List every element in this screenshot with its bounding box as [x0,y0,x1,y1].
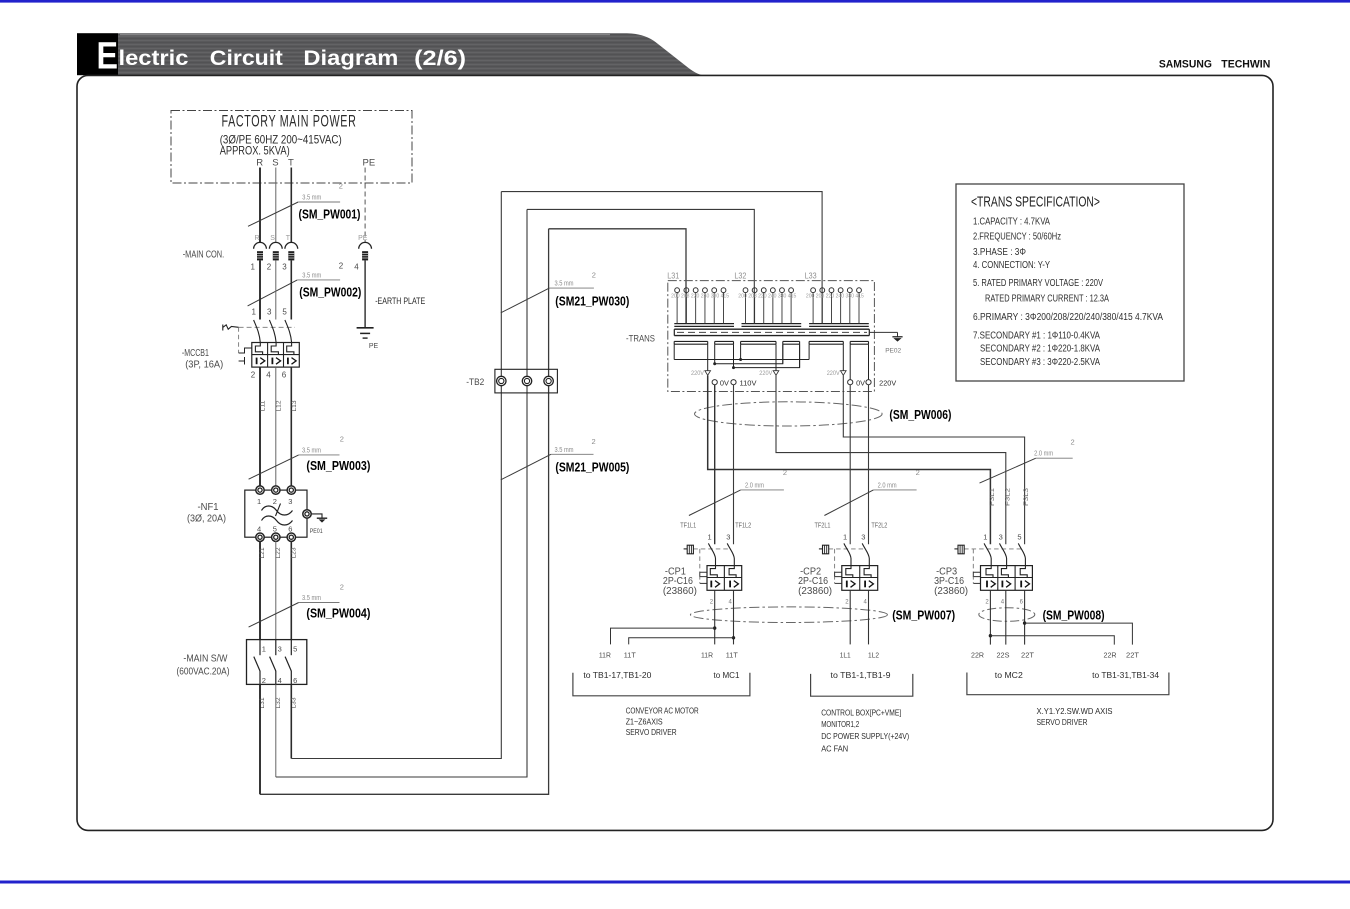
svg-text:PE: PE [358,235,368,242]
svg-text:X.Y1.Y2.SW.WD AXIS: X.Y1.Y2.SW.WD AXIS [1037,706,1113,716]
svg-text:TECHWIN: TECHWIN [1221,59,1270,71]
svg-text:2: 2 [916,468,920,477]
svg-text:200 208 220 240 380 415: 200 208 220 240 380 415 [671,294,729,300]
svg-text:2: 2 [339,262,344,271]
svg-text:1: 1 [708,533,712,542]
svg-text:220V: 220V [759,370,773,377]
svg-text:22T: 22T [1021,653,1035,660]
svg-text:APPROX. 5KVA): APPROX. 5KVA) [220,144,290,158]
secondary interconnect wire S2-S4 left [713,344,783,365]
svg-text:L11: L11 [260,400,267,412]
svg-text:1: 1 [252,308,257,317]
terminal labels 22R 22S 22T [971,653,1140,660]
svg-text:(3Ø, 20A): (3Ø, 20A) [187,514,226,525]
transformer secondary winding S6 [850,341,868,379]
wire loop bottom L32 to TB2 [276,209,527,777]
wire CP2 pole1 output 1L1 [849,590,851,644]
svg-text:6: 6 [288,525,292,534]
svg-text:2: 2 [783,468,787,477]
svg-text:220V: 220V [691,370,705,377]
wire T connector to MCCB1 [290,260,292,319]
svg-text:5: 5 [282,308,287,317]
cable marker ellipse SM_PW006 [695,402,952,426]
svg-text:22T: 22T [1126,653,1140,660]
factory main power box [171,111,412,184]
svg-text:5: 5 [273,525,277,534]
wire feeder to trans L33 [501,192,822,324]
svg-text:MONITOR1,2: MONITOR1,2 [821,719,859,729]
svg-text:to MC2: to MC2 [995,670,1023,680]
wire L11 MCCB1 to NF1 [260,367,267,490]
load description control box monitor dc power supply ac fan [821,708,909,754]
svg-text:(3P, 16A): (3P, 16A) [185,360,223,371]
main diagram border frame [77,75,1273,830]
svg-text:6: 6 [282,371,287,380]
load description conveyor ac motor servo driver [626,705,699,737]
svg-text:(SM21_PW030): (SM21_PW030) [555,295,629,309]
svg-text:-MCCB1: -MCCB1 [182,348,209,359]
svg-text:T: T [286,235,291,242]
svg-text:to MC1: to MC1 [714,670,740,680]
svg-text:L32: L32 [734,272,746,281]
trans specification box [956,184,1184,381]
wire L32 main switch down [275,684,282,777]
svg-text:1: 1 [251,263,256,272]
wire spec callout SM_PW001 [248,182,361,227]
svg-text:22R: 22R [971,653,984,660]
top blue border line [0,0,1350,3]
svg-text:2: 2 [339,182,343,191]
svg-text:(23860): (23860) [663,586,697,597]
main switch -MAIN S/W [247,640,307,685]
svg-text:200 208 220 240 380 415: 200 208 220 240 380 415 [806,294,864,300]
svg-text:6.PRIMARY : 3Φ200/208/220/240/: 6.PRIMARY : 3Φ200/208/220/240/380/415 4.… [973,312,1163,323]
svg-text:-MAIN CON.: -MAIN CON. [183,250,225,261]
svg-text:L21: L21 [259,547,266,559]
svg-text:3.5 mm: 3.5 mm [555,279,574,288]
svg-text:to TB1-31,TB1-34: to TB1-31,TB1-34 [1092,670,1159,680]
secondary terminal 0V of S6 [848,380,866,388]
wire 0V S2 to CP1 pole1 TF1L1 [714,385,716,545]
svg-text:RATED PRIMARY CURRENT : 12.3A: RATED PRIMARY CURRENT : 12.3A [985,294,1109,305]
svg-text:22S: 22S [997,653,1010,660]
svg-text:4: 4 [257,525,261,534]
svg-text:1L2: 1L2 [868,653,879,660]
svg-text:(23860): (23860) [798,586,832,597]
svg-text:220V: 220V [827,370,841,377]
secondary tap 220V diamond S1 [691,370,711,377]
transformer primary winding group L32 with taps 200-415 [738,288,801,327]
svg-text:1: 1 [983,533,987,542]
svg-text:-MAIN S/W: -MAIN S/W [183,654,227,665]
bottom blue border line [0,881,1350,884]
connector -MAIN CON pole PE [358,235,371,260]
wire L31 main switch down [259,684,266,794]
svg-text:3: 3 [726,533,730,542]
label -NF1 (3 phase 20A) [187,502,226,525]
svg-text:2: 2 [262,676,266,685]
svg-text:6: 6 [293,676,297,685]
wire CP1 pole1 output 11R [611,590,717,644]
svg-text:lectric: lectric [119,46,189,70]
wire 220V S5 to CP3 pole3 F3L3 [843,376,1024,545]
svg-text:(SM21_PW005): (SM21_PW005) [555,461,629,475]
wire 220V S6 to CP2 pole2 TF2L2 [868,385,870,545]
terminal block -TB2 [495,369,558,393]
wire PE dashed from factory to main connector [364,168,366,243]
secondary terminal 220V of S6 [866,380,897,388]
wire 0V S6 to CP2 pole1 TF2L1 [849,385,851,545]
breaker -CP1 [684,533,742,606]
wire spec callout SM21_PW005 [501,437,630,480]
title banner background [118,33,703,75]
title text Electric Circuit Diagram (2/6) [97,36,467,78]
svg-text:3.PHASE : 3Φ: 3.PHASE : 3Φ [973,247,1026,258]
label -CP3 C16 [934,567,968,598]
destination bracket to TB1-17,TB1-20 / to MC1 [573,670,750,696]
wire spec callout SM21_PW030 [501,271,630,313]
svg-text:1: 1 [843,533,847,542]
svg-text:SERVO DRIVER: SERVO DRIVER [626,727,677,737]
svg-text:2: 2 [592,437,596,446]
svg-text:TF2L1: TF2L1 [815,523,831,530]
svg-text:to TB1-17,TB1-20: to TB1-17,TB1-20 [583,670,651,680]
destination bracket to MC2 / to TB1-31,TB1-34 [967,670,1169,695]
svg-text:0V: 0V [856,380,865,387]
svg-text:22R: 22R [1104,653,1117,660]
svg-text:PE01: PE01 [310,528,323,535]
wire L21 NF1 to main switch [259,541,266,639]
wire spec callout 2.0mm at CP3 [980,438,1075,484]
svg-text:2: 2 [340,435,344,444]
wire L12 MCCB1 to NF1 [275,367,282,490]
transformer core [674,329,869,335]
breaker -CP2 [819,533,878,606]
wire spec callout 2.0mm at CP2 [824,468,919,515]
svg-text:Diagram: Diagram [303,46,398,70]
svg-text:2: 2 [251,371,256,380]
svg-text:11T: 11T [624,653,637,660]
svg-text:T: T [288,158,294,169]
label -MCCB1 (3P, 16A) [182,348,223,371]
earth plate ground symbol [357,328,379,350]
svg-text:R: R [255,235,260,242]
svg-text:2: 2 [267,263,272,272]
svg-text:4: 4 [354,263,359,272]
svg-text:110V: 110V [740,380,757,387]
svg-text:R: R [256,158,263,169]
svg-text:L31: L31 [667,272,679,281]
svg-text:3.5 mm: 3.5 mm [302,445,321,454]
svg-text:4. CONNECTION: Y-Y: 4. CONNECTION: Y-Y [973,260,1050,271]
wire CP1 pole2 output 11T [629,590,736,644]
svg-text:5: 5 [293,645,297,654]
svg-text:PE02: PE02 [885,348,901,355]
svg-text:SERVO DRIVER: SERVO DRIVER [1037,717,1088,727]
noise filter -NF1 [245,486,311,542]
svg-text:1.CAPACITY : 4.7KVA: 1.CAPACITY : 4.7KVA [973,217,1050,228]
svg-text:Circuit: Circuit [210,46,283,70]
wire CP3 pole3 output 22T [1023,590,1133,644]
svg-text:3: 3 [288,497,292,506]
label -MAIN S/W (600VAC 20A) [177,654,230,678]
svg-text:(23860): (23860) [934,586,968,597]
wire spec callout SM_PW002 [0,0,361,306]
svg-text:-TRANS: -TRANS [626,334,655,345]
svg-text:L33: L33 [805,272,817,281]
svg-text:CONTROL BOX[PC+VME]: CONTROL BOX[PC+VME] [821,708,901,718]
svg-text:2: 2 [592,271,596,280]
svg-text:3.5 mm: 3.5 mm [302,270,321,279]
svg-text:3: 3 [278,645,282,654]
breaker -CP3 [954,533,1032,606]
svg-text:TF1L1: TF1L1 [680,523,696,530]
svg-text:L12: L12 [275,400,282,412]
svg-text:TF2L2: TF2L2 [871,523,887,530]
svg-text:-NF1: -NF1 [198,502,219,513]
svg-text:2: 2 [1071,438,1075,447]
svg-text:(600VAC.20A): (600VAC.20A) [177,667,230,678]
wire CP3 pole2 output 22S [1005,590,1007,644]
wire PE connector to earth plate [364,260,366,327]
secondary terminal 0V of S2 [712,380,729,388]
wire L22 NF1 to main switch [275,541,282,639]
svg-text:<TRANS SPECIFICATION>: <TRANS SPECIFICATION> [971,194,1100,210]
svg-text:4: 4 [278,676,282,685]
wire L33 main switch down [291,684,298,758]
svg-text:SECONDARY #2 : 1Φ220-1.8KVA: SECONDARY #2 : 1Φ220-1.8KVA [980,344,1100,355]
transformer secondary winding S5 [809,341,843,370]
svg-text:1L1: 1L1 [840,653,851,660]
transformer primary winding group L31 with taps 200-415 [671,288,734,327]
svg-text:PE: PE [363,158,376,169]
cable marker ellipse SM_PW007 [690,607,955,623]
svg-text:0V: 0V [720,380,729,387]
title banner E block [77,33,118,75]
wire S connector to MCCB1 [275,260,277,319]
svg-text:(SM_PW001): (SM_PW001) [299,208,361,222]
svg-text:SAMSUNG: SAMSUNG [1159,59,1212,71]
svg-text:FACTORY MAIN POWER: FACTORY MAIN POWER [222,112,357,130]
svg-text:1: 1 [257,497,261,506]
svg-text:(SM_PW008): (SM_PW008) [1043,609,1105,623]
svg-text:3.5 mm: 3.5 mm [302,193,321,202]
svg-text:AC FAN: AC FAN [821,743,848,753]
svg-text:PE: PE [369,343,379,350]
breaker -MCCB1 [223,320,299,367]
ground PE01 of NF1 [310,514,328,535]
svg-text:DC POWER SUPPLY(+24V): DC POWER SUPPLY(+24V) [821,731,909,741]
svg-text:-EARTH PLATE: -EARTH PLATE [375,296,425,307]
wire R connector to MCCB1 [259,260,261,319]
svg-text:5. RATED PRIMARY VOLTAGE : 220: 5. RATED PRIMARY VOLTAGE : 220V [973,278,1103,289]
connector pin number 2 and 4 near PE [339,262,360,272]
secondary tap 220V diamond S5 [827,370,846,377]
wire L13 MCCB1 to NF1 [291,367,298,490]
wire S from factory to main connector [275,168,277,243]
wire feeder to trans L31 [549,229,686,324]
svg-text:F3L3: F3L3 [1023,488,1030,506]
svg-text:11R: 11R [701,653,713,660]
connector -MAIN CON pole T [285,235,298,260]
svg-text:(SM_PW002): (SM_PW002) [299,286,361,300]
secondary interconnect wire S1-S3-S5 [674,358,809,361]
svg-text:L22: L22 [275,547,282,559]
svg-text:3: 3 [999,533,1003,542]
svg-text:F3L1: F3L1 [989,488,996,506]
svg-text:2.0 mm: 2.0 mm [1034,449,1053,458]
wire 220V S3 to CP3 pole2 F3L2 [776,376,1006,545]
svg-text:2.0 mm: 2.0 mm [745,480,764,489]
transformer secondary winding S1 [674,341,708,370]
svg-text:3: 3 [861,533,865,542]
terminal labels 11R 11T to TB1 [599,653,739,660]
svg-text:200 208 220 240 380 415: 200 208 220 240 380 415 [738,294,796,300]
svg-text:L13: L13 [291,400,298,412]
wire spec callout SM_PW003 [249,435,371,480]
svg-text:3.5 mm: 3.5 mm [555,445,574,454]
breaker -MCCB1 pin numbers 1 3 5 [252,308,288,317]
svg-text:7.SECONDARY #1 : 1Φ110-0.4KVA: 7.SECONDARY #1 : 1Φ110-0.4KVA [973,330,1100,341]
svg-text:E: E [97,36,119,78]
svg-text:(SM_PW004): (SM_PW004) [306,607,370,621]
svg-text:Z1~Z6AXIS: Z1~Z6AXIS [626,716,663,726]
connector -MAIN CON pole R [254,235,267,260]
svg-text:2: 2 [273,497,277,506]
svg-text:TF1L2: TF1L2 [735,523,751,530]
transformer secondary winding S4 [783,341,800,367]
load description X Y1 Y2 SW WD axis servo driver [1037,706,1113,727]
terminal labels 1L1 1L2 [840,653,879,660]
wire spec callout 2.0mm at CP1 [689,468,787,515]
svg-text:(SM_PW003): (SM_PW003) [306,459,370,473]
svg-text:F3L2: F3L2 [1004,488,1011,506]
svg-text:2.0 mm: 2.0 mm [878,480,897,489]
svg-text:3.5 mm: 3.5 mm [302,593,321,602]
svg-text:1: 1 [262,645,266,654]
svg-text:(2/6): (2/6) [414,46,466,70]
wire 220V S1 to CP3 pole1 F3L1 [708,376,991,545]
svg-text:2.FREQUENCY : 50/60Hz: 2.FREQUENCY : 50/60Hz [973,232,1061,243]
svg-text:4: 4 [266,371,271,380]
breaker MCCB1 pin numbers 2 4 6 [251,371,287,380]
connector pin numbers 1 2 3 [251,263,288,272]
wire CP2 pole2 output 1L2 [868,590,870,644]
transformer primary winding group L33 with taps 200-415 [806,288,869,327]
cable marker ellipse SM_PW008 [979,608,1105,623]
svg-text:SECONDARY #3 : 3Φ220-2.5KVA: SECONDARY #3 : 3Φ220-2.5KVA [980,357,1100,368]
svg-text:220V: 220V [879,380,896,387]
svg-text:3: 3 [267,308,272,317]
wire CP3 pole1 output 22R [989,590,1115,644]
svg-text:(SM_PW006): (SM_PW006) [889,408,951,422]
SAMSUNG TECHWIN logo text [1159,59,1270,71]
svg-text:11R: 11R [599,653,611,660]
svg-text:2: 2 [340,583,344,592]
wire 110V S2 to CP1 pole2 TF1L2 [733,385,735,545]
svg-text:-TB2: -TB2 [466,377,484,388]
label -CP2 C16 [798,567,832,598]
svg-text:11T: 11T [726,653,739,660]
svg-text:S: S [270,235,275,242]
wire L23 NF1 to main switch [291,541,298,639]
connector -MAIN CON pole S [269,235,282,260]
svg-text:5: 5 [1017,533,1021,542]
wire R from factory to main connector [259,168,261,243]
wire feeder to trans L32 [527,209,754,323]
wire loop bottom L31 to TB2 [260,229,549,795]
secondary terminal 110V of S2 [731,380,757,388]
svg-text:S: S [272,158,278,169]
svg-text:to TB1-1,TB1-9: to TB1-1,TB1-9 [831,670,891,680]
wire loop bottom L33 to TB2 [291,192,501,759]
wire spec callout SM_PW004 [249,583,371,628]
secondary tap 220V diamond S3 [759,370,779,377]
svg-text:CONVEYOR AC MOTOR: CONVEYOR AC MOTOR [626,705,699,715]
transformer -TRANS enclosure box [668,281,875,392]
svg-text:L23: L23 [291,547,298,559]
transformer secondary winding S3 [741,341,776,370]
secondary interconnect wire S2-S4 right [732,344,800,369]
svg-text:3: 3 [282,263,287,272]
wire T from factory to main connector [290,168,292,243]
svg-text:(SM_PW007): (SM_PW007) [892,609,955,623]
label -CP1 C16 [663,567,697,598]
destination bracket to TB1-1,TB1-9 [811,670,913,696]
ground PE02 of transformer core [869,332,902,354]
transformer secondary winding S2 [715,341,734,367]
